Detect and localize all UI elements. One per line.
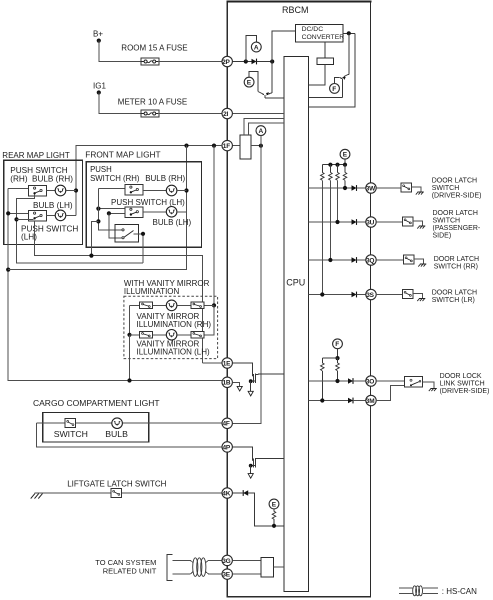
resistor R8 [321,358,323,363]
open arrow Q4 source [248,474,253,479]
svg-text:3Q: 3Q [366,257,374,264]
switch SW10 (cargo) [65,419,76,428]
node junction 1F-vanity [212,144,216,148]
svg-text:DOOR LATCH: DOOR LATCH [432,289,477,296]
svg-text:SWITCH: SWITCH [433,217,461,224]
push switch SW3 (front RH) [125,185,143,196]
svg-text:IG1: IG1 [93,82,106,91]
svg-text:A: A [259,128,264,135]
wire LH lower pin stub [17,218,34,220]
door latch switch (RR) [404,255,415,264]
svg-text:BULB: BULB [105,429,128,439]
node junction on 1E bus [89,254,93,258]
wire switch to bulb [143,211,166,213]
wire hook E to gate [249,72,258,92]
wire diode to CPU [248,493,284,526]
wire 3U to switch [376,221,402,223]
wire rear LH switch bottom to 1E bus [35,221,203,363]
push switch SW4 (front LH) [125,207,143,218]
wire 1B to open arrow [232,382,239,386]
svg-text:3U: 3U [366,219,374,226]
wire 3W to switch [376,187,401,189]
node junction on 1B bus [127,378,131,382]
ground [418,264,426,267]
pin 2P [222,56,232,66]
wire junction down to transistor Q2 [346,33,349,75]
wire front switch common [98,188,121,230]
svg-text:DC/DC: DC/DC [302,26,324,33]
svg-text:(RH): (RH) [10,174,28,183]
node junction bulb bus [6,268,10,272]
MOSFET Q3 [249,374,284,392]
svg-text:CONVERTER: CONVERTER [302,34,345,41]
wire 2P to diode junction [232,61,251,63]
svg-text:REAR MAP LIGHT: REAR MAP LIGHT [2,151,70,160]
diode D3 [352,185,357,191]
svg-text:SWITCH (RR): SWITCH (RR) [434,264,478,271]
node junction front LH row [107,211,111,215]
node E [244,77,254,87]
ground [429,389,437,392]
wire front RH row [98,187,125,189]
node A [256,126,266,136]
FRONT MAP LIGHT box [86,162,201,248]
wire resistor to junction [273,519,275,526]
wire R9 to 3O row [337,371,339,381]
wire CAN-H [173,560,191,562]
REAR MAP LIGHT box [4,160,83,244]
wire rear RH row [8,187,28,189]
node junctions on bus [328,163,332,167]
svg-text:3S: 3S [366,292,374,299]
wire R2 to junction [251,145,261,147]
ground liftgate [35,492,43,494]
wire transceiver to CPU [274,566,284,568]
svg-text:ILLUMINATION (LH): ILLUMINATION (LH) [137,347,211,356]
svg-text:(DRIVER-SIDE): (DRIVER-SIDE) [432,193,482,200]
wire bulb bus to front bulbs [8,146,186,270]
svg-text:ROOM 15 A FUSE: ROOM 15 A FUSE [121,43,187,52]
bulb rear LH [55,210,66,221]
wire E to resistor [273,509,275,511]
wire R1 to CPU [309,64,326,84]
svg-text:A: A [254,44,259,51]
pin 1B [222,377,232,387]
node junction selector output [141,232,145,236]
svg-text:DOOR LATCH: DOOR LATCH [434,256,479,263]
node junction A2 [259,144,263,148]
wire junction down to 4F [232,146,261,424]
wire 1E to MOSFET Q3 gate [232,363,252,376]
wire selector output [134,234,144,263]
wire 3U row [309,221,352,223]
wire bulb to common [66,190,76,192]
wire 2I to CPU [232,113,284,115]
pin 3E [222,569,232,579]
node junction after diode [270,59,274,63]
svg-text:1B: 1B [223,380,231,387]
wire R8 to 3M row [321,371,323,401]
wire liftgate row [43,492,222,494]
node junction vanity LH left [127,333,131,337]
diode D6 [352,292,357,298]
node A [251,42,261,52]
bulb vanity LH [166,330,177,341]
svg-text:RBCM: RBCM [282,5,309,15]
wire hook F to Q2 gate [335,77,340,83]
push switch SW1 (rear RH) [29,186,47,197]
svg-text:3G: 3G [222,558,230,565]
wire DC/DC right to junction [343,32,355,34]
node junction rear bulbs [74,188,78,192]
wire front LH row [109,212,125,214]
wire DC/DC junction down-left to CPU [309,33,355,107]
svg-text:DOOR LATCH: DOOR LATCH [433,210,478,217]
resistor R5 [329,165,331,173]
svg-text:3O: 3O [366,378,374,385]
svg-text:SWITCH (RH): SWITCH (RH) [90,174,140,183]
svg-text:SWITCH: SWITCH [54,429,88,439]
svg-text:DOOR LATCH: DOOR LATCH [432,177,477,184]
svg-text:F: F [335,341,339,348]
wire A to junction [260,136,262,146]
node junction front common [96,219,100,223]
bulb front LH [166,207,177,218]
svg-text:3W: 3W [366,185,376,192]
wire common left bus to 1B [8,188,222,380]
svg-text:METER 10 A FUSE: METER 10 A FUSE [118,98,187,107]
bulb cargo [112,418,123,429]
node junction front LH upper [96,207,100,211]
wire vanity feed from 1F [213,146,215,335]
wire 3G to transceiver [232,559,260,561]
resistor R2 (1F) [240,135,251,159]
svg-text:1F: 1F [223,143,230,150]
pin 3S [366,289,376,299]
wire 4K to diode [232,492,242,494]
svg-text:1E: 1E [223,360,231,367]
svg-text:B+: B+ [93,30,103,39]
CAN transceiver box [261,558,274,577]
node junction LH lower pin [14,217,18,221]
pin 1E [222,358,232,368]
door latch switch (passenger) [403,217,414,226]
pin 3O [366,376,376,386]
pin 4F [222,418,232,428]
node E (pull-up bank) [340,149,350,159]
ground [417,226,425,229]
wire 1F to resistor R2 [232,145,240,147]
door latch switch (LR) [403,290,414,299]
svg-text:RELATED UNIT: RELATED UNIT [103,566,157,575]
wire vanity LH row [130,305,215,334]
wire CAN-L [173,573,191,575]
wire front LH upper pin [98,208,125,210]
svg-text:(DRIVER-SIDE): (DRIVER-SIDE) [440,388,490,395]
wire bulb to common [177,190,187,192]
wire vanity LH left to 1B bus [129,335,131,381]
svg-text:2I: 2I [223,111,228,118]
svg-text:2P: 2P [222,59,230,66]
wire lock switch to ground [423,382,434,389]
svg-text:LIFTGATE LATCH SWITCH: LIFTGATE LATCH SWITCH [67,479,166,488]
wire B+ to fuse [99,41,141,62]
CPU box [284,56,309,591]
svg-text:(PASSENGER-: (PASSENGER- [433,225,481,232]
wire fuse to 2P [159,61,222,63]
wire fuse to 2I [159,113,222,115]
wire 3S to switch [376,294,402,296]
svg-text:BULB (LH): BULB (LH) [33,201,73,210]
HS-CAN legend [399,586,438,596]
open arrow Q3 source [248,391,253,396]
pin 3W [366,183,376,193]
push switch SW2 (rear LH) [29,211,47,222]
resistor R1 below DC/DC [324,42,326,58]
ROOM 15A fuse F1 [141,58,159,65]
svg-text:4P: 4P [223,444,231,451]
wire rear switch lower pins [17,194,144,263]
node junction LH row left [6,211,10,215]
svg-text:3E: 3E [222,572,230,579]
transistor Q2 [340,76,346,98]
DC/DC converter U1 [295,25,343,42]
wire resistor bus [322,164,345,166]
wire R2 top taps to CPU [244,118,284,135]
bulb rear RH [55,185,66,196]
resistor R4 [321,165,323,173]
pin 4P [222,442,232,452]
twisted pair [191,558,223,577]
diode D4 [352,219,357,225]
bulb front RH [166,185,177,196]
node junction DC/DC output [347,31,351,35]
pin 3G [222,555,232,565]
transistor Q1 [258,92,272,98]
node junction 4K row [272,524,276,528]
ground [417,299,425,302]
wire 3Q to switch [376,259,403,261]
wire diode to junction [257,61,273,63]
svg-text:SIDE): SIDE) [433,233,452,240]
wire Q2 source to CPU [309,97,343,99]
pin 2I [222,108,232,118]
bracket [167,554,173,580]
switch SW11 (liftgate) [111,489,122,498]
wire IG1 to fuse [99,93,141,114]
door latch switch (driver) [401,183,412,192]
wire 1F supply bus to map lights [76,146,222,216]
svg-text:4K: 4K [222,490,230,497]
svg-text:LINK SWITCH: LINK SWITCH [440,381,485,388]
wire 3S row [309,294,352,296]
wire hook to A [246,35,256,61]
resistor R6 [337,165,339,173]
wire vanity left link [129,305,131,334]
wire 4F row [37,422,223,424]
svg-text:F: F [332,86,336,93]
resistor R9 [337,358,339,363]
selector switch SW5 [115,225,139,243]
wire Q1 source to CPU [265,97,284,99]
wire switch to bulb [47,190,56,192]
resistor R7 [344,165,346,173]
pin 3M [366,395,376,405]
wire 3M row [309,400,349,402]
METER 10A fuse F2 [141,110,159,117]
wire R5 to 3Q row [329,180,331,260]
wire R4 to 3S row [321,180,323,294]
node junction at 2P branch [244,59,248,63]
vanity switch SW7 [191,302,204,309]
wire 4P to MOSFET Q4 gate [232,447,252,461]
open arrow 1B [237,386,242,391]
wire 3W row [309,187,352,189]
svg-text:4F: 4F [223,421,230,428]
bulb vanity RH [166,300,177,311]
svg-text:CARGO COMPARTMENT LIGHT: CARGO COMPARTMENT LIGHT [33,398,160,408]
wire E to resistor bus [344,159,346,165]
svg-text:ILLUMINATION (RH): ILLUMINATION (RH) [137,320,212,329]
pin 4K [222,488,232,498]
node junction front bulbs [184,188,188,192]
svg-text:3M: 3M [366,398,375,405]
node junction vanity RH [212,303,216,307]
wire 3Q row [309,259,352,261]
node F (lock bank) [333,339,343,349]
wire switch to bulb [47,214,56,216]
diode D2 (reversed) [243,490,248,496]
diode D8 [348,398,353,404]
node E [269,499,279,509]
wire 3O to lock switch [376,380,404,382]
pin 1F [222,140,232,150]
ground [416,192,424,195]
svg-text:BULB (LH): BULB (LH) [153,218,192,227]
pin 3U [366,217,376,227]
wire junction up to DC/DC [272,31,295,62]
wire rear LH row [8,212,28,214]
MOSFET Q4 [249,458,284,474]
wire R6 to 3U row [337,180,339,222]
pin 3Q [366,255,376,265]
wire bulb to common [177,211,187,213]
wire F bus [322,357,337,359]
wire switch to bulb [143,190,166,192]
wire front common branch [91,221,98,255]
svg-text:PUSH: PUSH [90,165,112,174]
svg-text:ILLUMINATION: ILLUMINATION [124,287,180,296]
svg-text:: HS-CAN: : HS-CAN [442,587,477,596]
wire LH row to selector [109,213,122,237]
wire 3M to lock switch [376,386,404,401]
svg-text:PUSH SWITCH (LH): PUSH SWITCH (LH) [111,198,185,207]
door lock link switch [404,377,422,388]
wire vanity RH row [130,304,215,306]
wire 1E from bus [203,362,223,364]
svg-text:CPU: CPU [286,278,305,288]
vanity switch SW6 [140,302,153,309]
RBCM module box [227,1,370,596]
diode D5 [352,257,357,263]
wire 3E to transceiver [232,573,260,575]
vanity switch SW8 [140,332,153,339]
diode D7 [348,378,353,384]
svg-text:FRONT MAP LIGHT: FRONT MAP LIGHT [85,150,160,160]
wire 3O row [309,380,349,382]
wire R7 to 3W row [344,180,346,188]
wire junction down to transistor Q1 drain [271,62,273,93]
wire bulb to common [66,214,76,216]
svg-text:SWITCH: SWITCH [432,185,460,192]
vanity switch SW9 [191,332,204,339]
node junction 1F-frontbulbs [184,144,188,148]
svg-text:SWITCH (LR): SWITCH (LR) [432,297,475,304]
svg-text:BULB (RH): BULB (RH) [145,174,185,183]
svg-text:BULB (RH): BULB (RH) [32,174,73,183]
diode D1 [252,59,257,65]
node F [330,84,340,94]
resistor R3 [272,511,276,519]
wire 4P row [37,423,223,447]
wire F to bus [337,349,339,358]
svg-text:DOOR LOCK: DOOR LOCK [440,373,482,380]
